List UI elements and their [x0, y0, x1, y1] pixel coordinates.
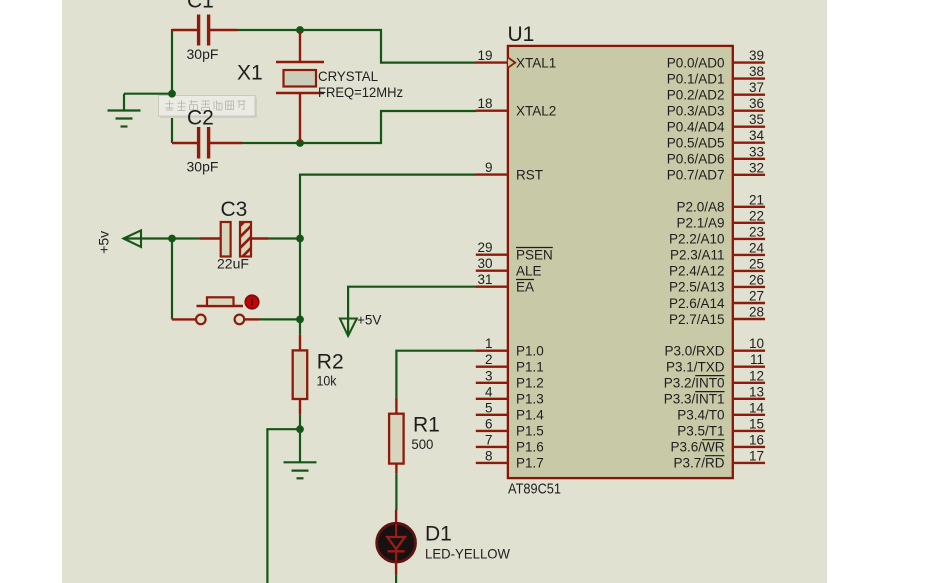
svg-text:P2.7/A15: P2.7/A15: [669, 312, 725, 327]
svg-text:P0.5/AD5: P0.5/AD5: [667, 136, 725, 151]
pin 23 (P2.2/A10) stub: [733, 238, 765, 240]
svg-text:22uF: 22uF: [217, 256, 249, 272]
svg-text:500: 500: [411, 436, 433, 452]
svg-text:C3: C3: [221, 198, 248, 221]
pin 39 (P0.0/AD0) stub: [733, 61, 765, 63]
wire: C1/C2 ground-side vertical: [171, 29, 173, 143]
junction: crystal bottom: [296, 139, 304, 147]
svg-text:28: 28: [749, 305, 764, 320]
wire: LED to bottom edge: [395, 575, 397, 583]
svg-text:FREQ=12MHz: FREQ=12MHz: [318, 84, 403, 100]
button actuator dot: [245, 295, 258, 308]
pin 8 (P1.7) stub: [476, 462, 508, 464]
pin 36 (P0.3/AD3) stub: [733, 109, 765, 111]
button SW contact right: [235, 315, 245, 325]
svg-text:7: 7: [485, 432, 493, 447]
pin 19 (XTAL1) stub: [476, 61, 508, 63]
pin 33 (P0.6/AD6) stub: [733, 158, 765, 160]
pin 28 (P2.7/A15) stub: [733, 318, 765, 320]
svg-text:P1.5: P1.5: [516, 424, 544, 439]
wire: R1 to LED: [395, 473, 397, 510]
svg-text:C2: C2: [187, 107, 214, 130]
svg-text:P1.0: P1.0: [516, 344, 544, 359]
svg-text:P1.1: P1.1: [516, 360, 544, 375]
svg-text:5: 5: [485, 400, 493, 415]
svg-text:21: 21: [749, 192, 764, 207]
svg-text:19: 19: [477, 48, 492, 63]
svg-text:22: 22: [749, 208, 764, 223]
power +5v arrow (left, pointing left): [124, 230, 142, 247]
svg-text:P3.1/TXD: P3.1/TXD: [666, 360, 725, 375]
junction: crystal top: [296, 26, 304, 34]
svg-text:16: 16: [749, 432, 764, 447]
overline WR: [702, 439, 725, 441]
svg-text:P1.4: P1.4: [516, 408, 544, 423]
svg-text:EA: EA: [516, 280, 534, 295]
pin 9 (RST) stub: [476, 173, 508, 175]
pin 29 (PSEN) stub: [476, 253, 508, 255]
svg-text:P3.0/RXD: P3.0/RXD: [664, 344, 724, 359]
svg-text:23: 23: [749, 224, 764, 239]
svg-text:P3.4/T0: P3.4/T0: [677, 408, 724, 423]
wire: button right to bus: [259, 318, 300, 320]
button SW actuator bar: [197, 305, 244, 308]
svg-text:17: 17: [749, 448, 764, 463]
svg-text:37: 37: [749, 80, 764, 95]
svg-text:6: 6: [485, 416, 493, 431]
svg-text:X1: X1: [237, 62, 263, 85]
svg-text:RST: RST: [516, 167, 543, 182]
junction: button / RST bus: [296, 316, 304, 324]
svg-text:33: 33: [749, 144, 764, 159]
svg-text:38: 38: [749, 64, 764, 79]
svg-text:+5v: +5v: [96, 231, 112, 254]
pin 1 (P1.0) stub: [476, 350, 508, 352]
wire: +5v arrow to C3: [124, 237, 200, 239]
svg-text:P0.3/AD3: P0.3/AD3: [667, 104, 725, 119]
svg-text:P1.6: P1.6: [516, 440, 544, 455]
svg-text:11: 11: [750, 352, 764, 367]
svg-text:P3.3/INT1: P3.3/INT1: [664, 392, 725, 407]
svg-text:35: 35: [749, 112, 764, 127]
overline INT1: [695, 391, 724, 393]
svg-text:24: 24: [749, 240, 765, 255]
svg-text:29: 29: [477, 240, 492, 255]
svg-text:12: 12: [749, 368, 764, 383]
button SW lead left: [172, 318, 196, 320]
svg-text:U1: U1: [508, 23, 535, 46]
junction: R2 bottom: [296, 425, 304, 433]
svg-text:P0.7/AD7: P0.7/AD7: [667, 168, 725, 183]
pin 5 (P1.4) stub: [476, 414, 508, 416]
svg-text:34: 34: [749, 128, 765, 143]
svg-text:10k: 10k: [317, 373, 338, 389]
svg-text:PSEN: PSEN: [516, 248, 553, 263]
svg-text:AT89C51: AT89C51: [508, 481, 561, 498]
right pin stubs: [733, 63, 765, 463]
svg-text:13: 13: [749, 384, 764, 399]
pin 2 (P1.1) stub: [476, 366, 508, 368]
pin 25 (P2.4/A12) stub: [733, 270, 765, 272]
wire: RST horizontal: [300, 174, 476, 176]
junction: ground / C1C2: [168, 90, 176, 98]
pin 16 (P3.6/WR) stub: [733, 446, 765, 448]
overline PSEN: [516, 247, 553, 249]
svg-text:39: 39: [749, 48, 764, 63]
pin 4 (P1.3) stub: [476, 398, 508, 400]
ground (under R2): [284, 462, 317, 478]
wire: R2 junction to ground: [299, 429, 301, 462]
svg-text:C1: C1: [187, 0, 214, 13]
junction: +5v / C3: [168, 235, 176, 243]
svg-text:R1: R1: [413, 414, 440, 437]
svg-text:P2.5/A13: P2.5/A13: [669, 280, 725, 295]
power +5V arrow (down, at EA): [340, 319, 357, 337]
svg-text:P0.0/AD0: P0.0/AD0: [667, 55, 725, 70]
pin 10 (P3.0/RXD) stub: [733, 350, 765, 352]
svg-text:36: 36: [749, 96, 764, 111]
svg-text:4: 4: [485, 384, 493, 399]
svg-text:30pF: 30pF: [187, 46, 219, 62]
svg-text:P2.4/A12: P2.4/A12: [669, 264, 725, 279]
pin 7 (P1.6) stub: [476, 446, 508, 448]
pin 13 (P3.3/INT1) stub: [733, 398, 765, 400]
pin 27 (P2.6/A14) stub: [733, 302, 765, 304]
svg-text:P1.2: P1.2: [516, 376, 544, 391]
pin 31 (EA) stub: [476, 286, 508, 288]
svg-text:P2.0/A8: P2.0/A8: [676, 200, 724, 215]
svg-text:XTAL1: XTAL1: [516, 55, 556, 70]
svg-text:P3.6/WR: P3.6/WR: [670, 440, 724, 455]
pin 38 (P0.1/AD1) stub: [733, 77, 765, 79]
svg-text:P3.5/T1: P3.5/T1: [677, 424, 724, 439]
svg-text:P1.3: P1.3: [516, 392, 544, 407]
overline EA: [516, 279, 534, 281]
svg-text:P3.7/RD: P3.7/RD: [673, 456, 724, 471]
wire: +5v down to button: [171, 239, 173, 320]
svg-text:P0.6/AD6: P0.6/AD6: [667, 152, 725, 167]
svg-text:26: 26: [749, 272, 764, 287]
svg-text:R2: R2: [317, 351, 344, 374]
pin 24 (P2.3/A11) stub: [733, 254, 765, 256]
ground (top-left): [108, 94, 141, 127]
wire: P1.0 to R1: [396, 351, 476, 398]
svg-text:31: 31: [477, 272, 492, 287]
pin 15 (P3.5/T1) stub: [733, 430, 765, 432]
svg-text:P1.7: P1.7: [516, 456, 544, 471]
wire: R2 bottom junction: [299, 414, 301, 429]
overline INT0: [695, 375, 724, 377]
svg-text:D1: D1: [425, 523, 452, 546]
svg-text:8: 8: [485, 448, 493, 463]
svg-text:25: 25: [749, 256, 764, 271]
right pin names: [664, 55, 725, 470]
svg-text:P3.2/INT0: P3.2/INT0: [664, 376, 725, 391]
pin 37 (P0.2/AD2) stub: [733, 93, 765, 95]
left pin stubs: [476, 63, 508, 463]
svg-text:P0.4/AD4: P0.4/AD4: [667, 120, 725, 135]
pin 12 (P3.2/INT0) stub: [733, 382, 765, 384]
wire: EA to +5V arrow: [348, 287, 476, 336]
svg-text:P0.1/AD1: P0.1/AD1: [667, 71, 725, 86]
svg-text:+5V: +5V: [357, 313, 381, 328]
svg-text:15: 15: [749, 416, 764, 431]
svg-text:18: 18: [477, 96, 492, 111]
pin 17 (P3.7/RD) stub: [733, 462, 765, 464]
junction: C3 / RST bus: [296, 235, 304, 243]
wire: RST vertical bus to R2: [299, 174, 301, 335]
svg-text:1: 1: [485, 336, 493, 351]
svg-text:2: 2: [485, 352, 493, 367]
button SW actuator cap: [207, 297, 234, 306]
pin 32 (P0.7/AD7) stub: [733, 174, 765, 176]
svg-text:P2.1/A9: P2.1/A9: [676, 216, 724, 231]
pin 34 (P0.5/AD5) stub: [733, 141, 765, 143]
right pin numbers: [749, 48, 765, 463]
wire: ground branch left: [124, 93, 172, 95]
left pin names: [516, 55, 556, 470]
pin 14 (P3.4/T0) stub: [733, 414, 765, 416]
svg-text:P2.3/A11: P2.3/A11: [670, 248, 725, 263]
pin 3 (P1.2) stub: [476, 382, 508, 384]
clock chevron XTAL1: [508, 58, 515, 68]
svg-text:27: 27: [749, 289, 764, 304]
svg-text:9: 9: [485, 160, 493, 175]
svg-text:32: 32: [749, 160, 764, 175]
svg-text:30pF: 30pF: [187, 159, 219, 175]
pin 35 (P0.4/AD4) stub: [733, 125, 765, 127]
pin 21 (P2.0/A8) stub: [733, 206, 765, 208]
svg-text:P2.2/A10: P2.2/A10: [669, 232, 725, 247]
svg-text:XTAL2: XTAL2: [516, 104, 556, 119]
pin 18 (XTAL2) stub: [476, 109, 508, 111]
svg-text:3: 3: [485, 368, 493, 383]
left pin numbers: [477, 48, 493, 463]
wire: R2 junction left and down off-canvas: [267, 429, 300, 583]
pin 30 (ALE) stub: [476, 270, 508, 272]
pin 6 (P1.5) stub: [476, 430, 508, 432]
svg-text:30: 30: [477, 256, 492, 271]
svg-text:ALE: ALE: [516, 264, 542, 279]
svg-text:P2.6/A14: P2.6/A14: [669, 296, 725, 311]
wire: C3 right to bus: [268, 237, 300, 239]
svg-text:CRYSTAL: CRYSTAL: [318, 68, 378, 84]
pin 11 (P3.1/TXD) stub: [733, 366, 765, 368]
svg-text:10: 10: [749, 336, 764, 351]
pin 22 (P2.1/A9) stub: [733, 222, 765, 224]
button SW contact left: [196, 315, 206, 325]
overline RD: [705, 455, 725, 457]
svg-text:14: 14: [749, 400, 765, 415]
wire: C1 top to XTAL1: [237, 30, 476, 63]
svg-text:LED-YELLOW: LED-YELLOW: [425, 546, 511, 562]
svg-text:P0.2/AD2: P0.2/AD2: [667, 88, 725, 103]
wire: C2 to XTAL2: [242, 111, 476, 143]
button SW lead right: [244, 318, 259, 320]
pin 26 (P2.5/A13) stub: [733, 286, 765, 288]
